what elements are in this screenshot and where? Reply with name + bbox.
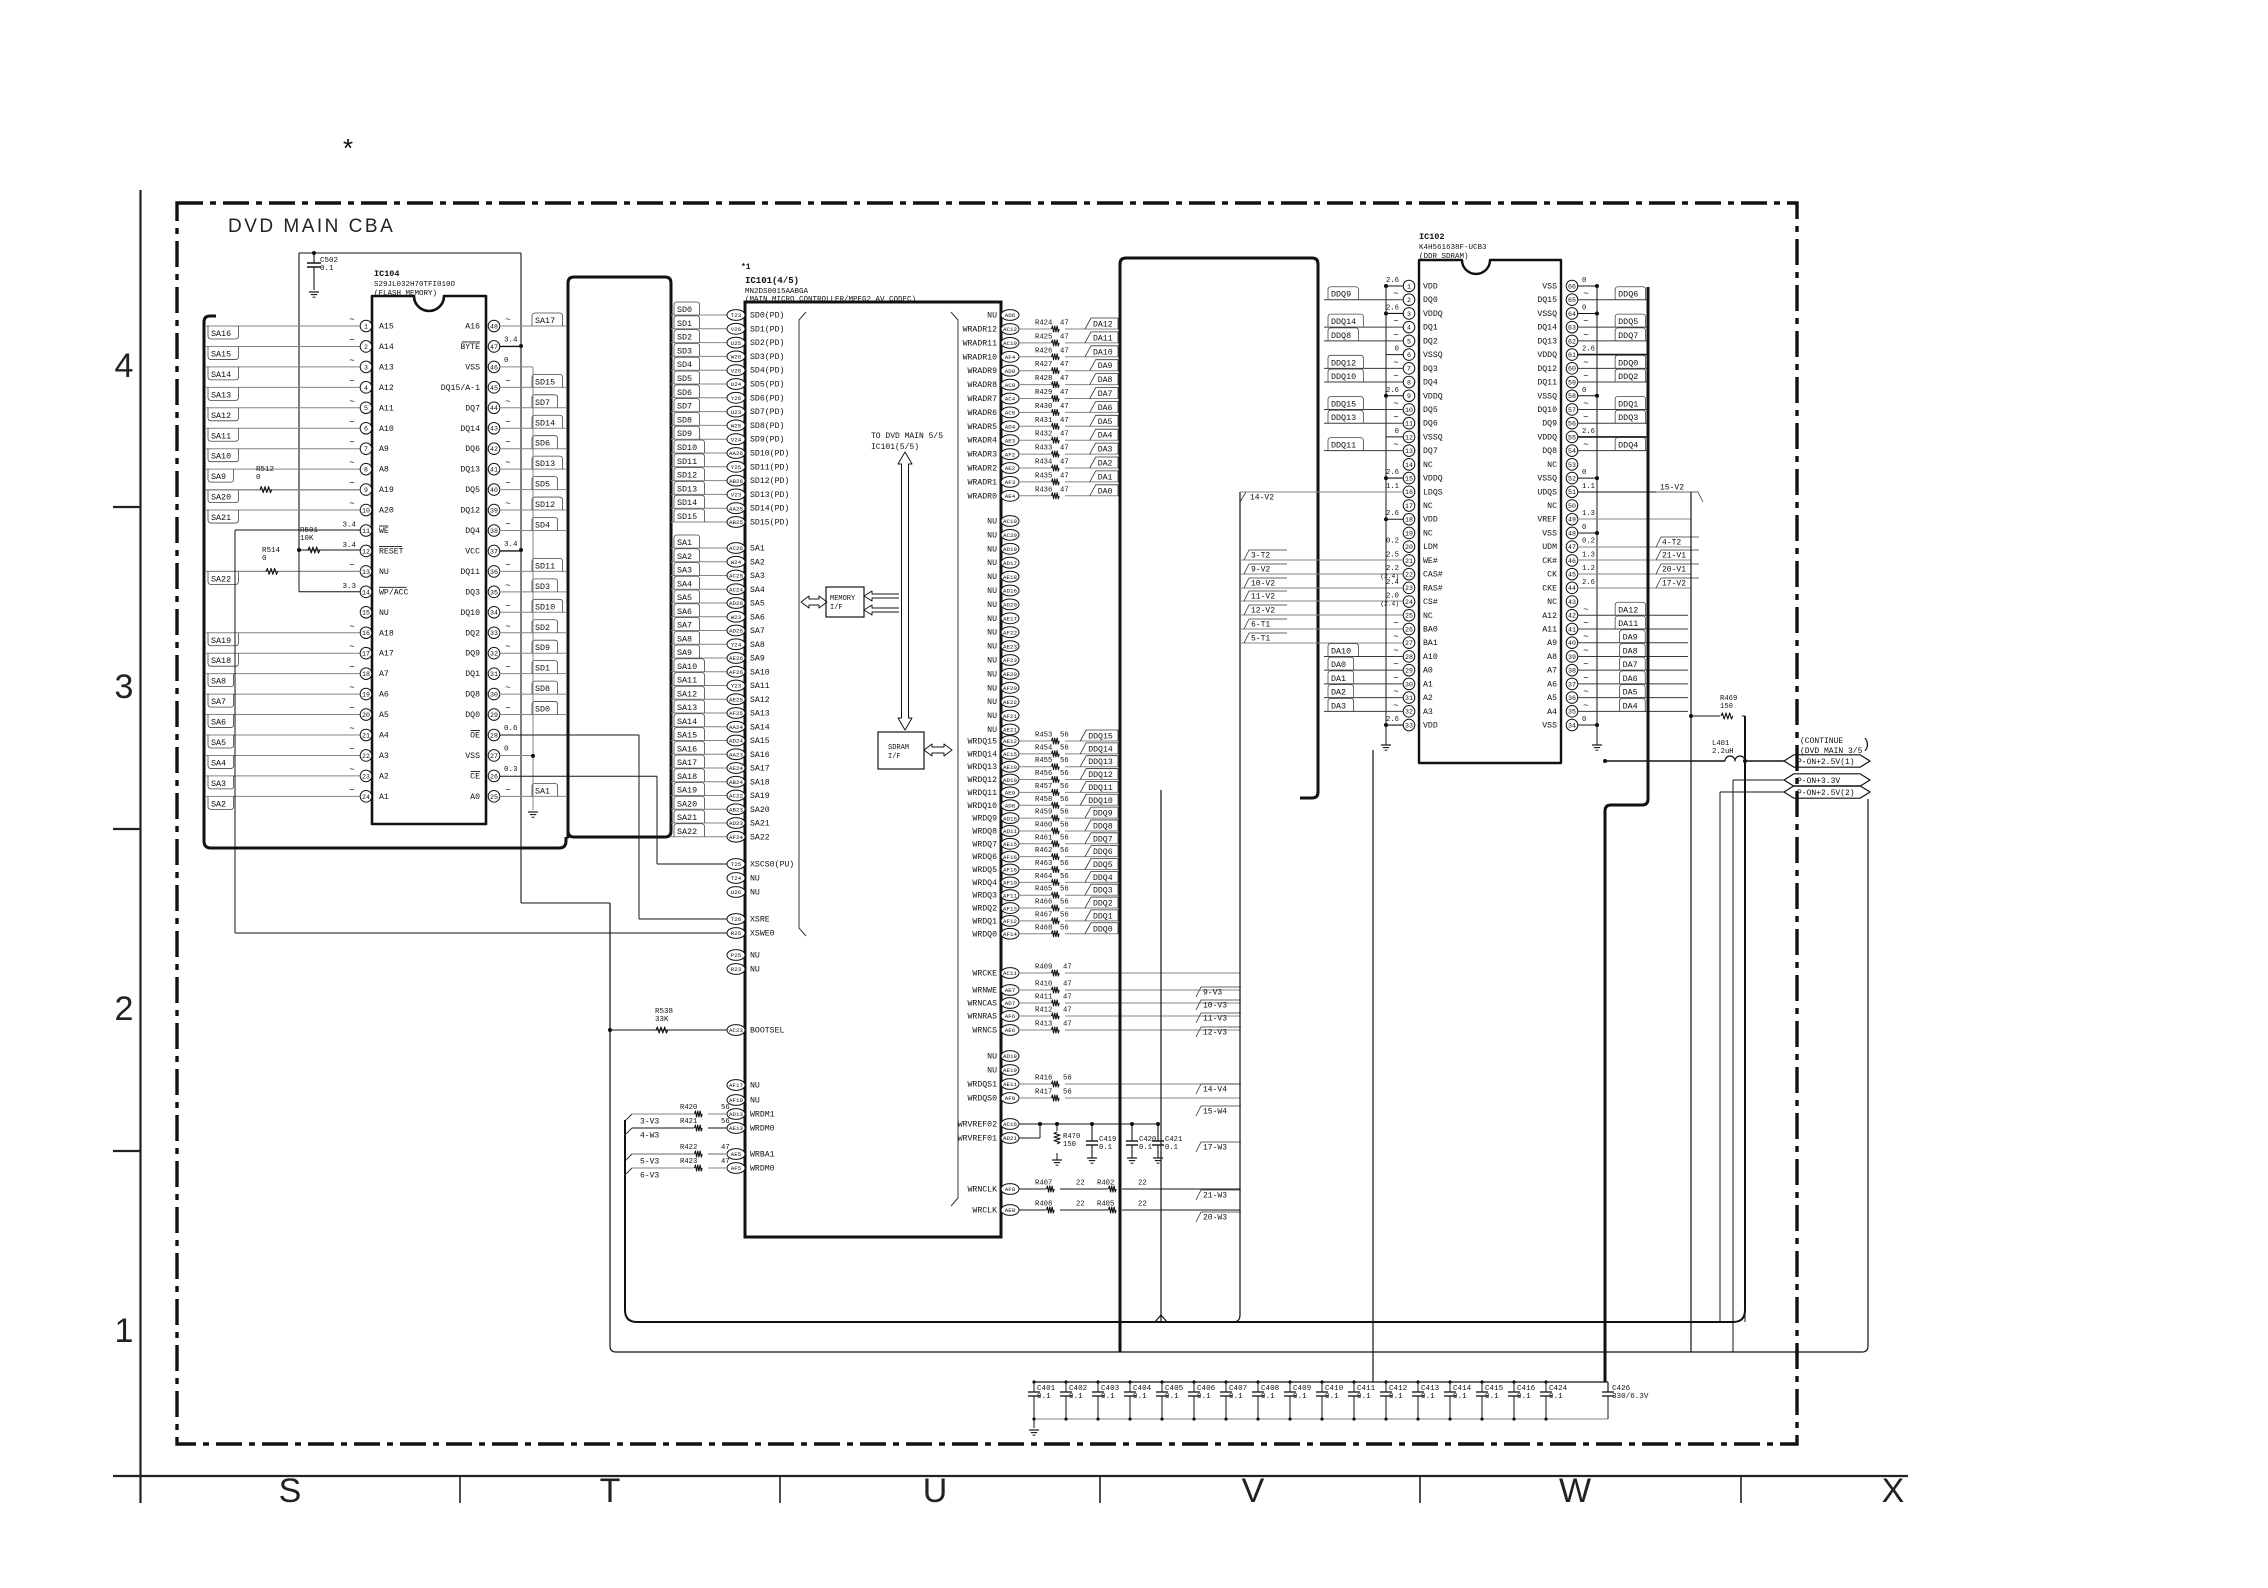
svg-text:WRADR3: WRADR3: [968, 451, 998, 460]
svg-text:47: 47: [1060, 389, 1069, 397]
flag 5-V3: [625, 1154, 632, 1161]
svg-text:3.4: 3.4: [342, 542, 356, 550]
svg-text:~: ~: [349, 765, 354, 775]
svg-text:44: 44: [1568, 585, 1576, 592]
svg-text:Y25: Y25: [731, 464, 742, 471]
IC101 pin AF5 WRDM0: [727, 1163, 745, 1174]
svg-text:~: ~: [1583, 330, 1588, 340]
svg-text:DQ15/A-1: DQ15/A-1: [441, 383, 480, 393]
svg-text:IC104: IC104: [374, 269, 400, 279]
svg-text:~: ~: [505, 520, 510, 530]
svg-text:AE7: AE7: [1005, 987, 1016, 994]
svg-text:NU: NU: [750, 1082, 760, 1091]
svg-text:C401: C401: [1037, 1385, 1056, 1393]
svg-text:AE18: AE18: [1003, 574, 1017, 581]
net label SD6 bus: [671, 397, 727, 399]
svg-text:~: ~: [1583, 372, 1588, 382]
net label DA9: [1577, 642, 1688, 644]
net label SA5 bus: [671, 602, 727, 604]
IC101 pin AE15 WRDQ7: [1001, 838, 1019, 849]
svg-text:DQ8: DQ8: [1542, 447, 1557, 456]
svg-text:DQ13: DQ13: [460, 466, 480, 475]
svg-text:WRDQ14: WRDQ14: [968, 750, 998, 759]
IC102 pin 33 VDD: [1403, 719, 1415, 731]
svg-text:NU: NU: [987, 573, 997, 582]
svg-text:47: 47: [721, 1144, 730, 1152]
svg-text:SD6: SD6: [535, 439, 550, 449]
svg-text:W: W: [1559, 1472, 1591, 1510]
svg-text:25: 25: [1405, 613, 1413, 620]
IC104 pin 9 A19: [206, 489, 361, 491]
IC101 pin U26 NU: [727, 887, 745, 898]
IC101 pin AD10 WRDQ12: [1001, 774, 1019, 785]
svg-text:WRDM0: WRDM0: [750, 1125, 775, 1134]
IC104 pin 19 A6: [206, 693, 361, 695]
svg-text:T25: T25: [731, 861, 742, 868]
svg-text:0: 0: [1582, 387, 1586, 395]
svg-text:WRDQ4: WRDQ4: [972, 879, 997, 888]
svg-text:AE23: AE23: [1003, 643, 1017, 650]
svg-text:A4: A4: [379, 732, 389, 741]
svg-text:12: 12: [1405, 434, 1413, 441]
IC101 pin AE21 NU: [1001, 724, 1019, 735]
resistor R413 47: [1019, 1029, 1051, 1031]
net label DDQ3: [1085, 884, 1118, 895]
svg-text:~: ~: [1583, 687, 1588, 697]
IC101 pin AA25 SD14(PD): [727, 503, 745, 514]
svg-text:0: 0: [1582, 716, 1586, 724]
resistor R407 22: [1019, 1188, 1046, 1190]
svg-text:AC12: AC12: [1003, 326, 1017, 333]
svg-text:V26: V26: [731, 326, 742, 333]
svg-text:MEMORY: MEMORY: [830, 595, 856, 603]
IC102 pin 27 BA1: [1403, 637, 1415, 649]
svg-text:VSS: VSS: [465, 363, 480, 372]
net label DA7: [1577, 669, 1688, 671]
svg-text:SA2: SA2: [211, 799, 226, 809]
svg-text:~: ~: [349, 356, 354, 366]
flag 14-V4: [1196, 1084, 1241, 1094]
svg-text:56: 56: [1060, 899, 1069, 907]
IC104 pin 29 DQ0: [488, 709, 500, 721]
svg-text:~: ~: [1583, 358, 1588, 368]
IC101 pin AE12 WRDQ15: [1001, 736, 1019, 747]
svg-text:DDQ2: DDQ2: [1093, 900, 1113, 909]
IC104 pin 11 WE: [360, 525, 372, 537]
svg-text:0: 0: [1582, 277, 1586, 285]
svg-text:~: ~: [505, 499, 510, 509]
IC102 pin 48 VSS: [1566, 527, 1578, 539]
svg-text:R468: R468: [1035, 924, 1052, 932]
svg-text:WRDQ11: WRDQ11: [968, 789, 998, 798]
svg-text:~: ~: [505, 560, 510, 570]
svg-text:WRDQ8: WRDQ8: [972, 827, 997, 836]
svg-text:NU: NU: [987, 670, 997, 679]
svg-text:U25: U25: [731, 340, 742, 347]
svg-text:SA20: SA20: [677, 799, 697, 809]
svg-text:A11: A11: [379, 404, 394, 413]
svg-text:0.1: 0.1: [1485, 1393, 1499, 1401]
net label SD14 bus: [671, 507, 727, 509]
IC101 pin AF21 NU: [1001, 710, 1019, 721]
svg-text:DDQ2: DDQ2: [1618, 372, 1638, 382]
IC101 pin AD13 WRDM1: [727, 1109, 745, 1120]
svg-text:SD4(PD): SD4(PD): [750, 366, 784, 376]
svg-text:2: 2: [1407, 297, 1411, 304]
svg-text:SA21: SA21: [677, 813, 697, 823]
svg-text:AC19: AC19: [1003, 518, 1017, 525]
net label SD2 bus: [671, 342, 727, 344]
flag 12-V3: [1196, 1027, 1241, 1037]
svg-text:53: 53: [1568, 462, 1576, 469]
svg-text:AF14: AF14: [1003, 931, 1017, 938]
IC101 pin AD24 SA15: [727, 735, 745, 746]
svg-text:C412: C412: [1389, 1385, 1408, 1393]
svg-text:SA17: SA17: [750, 765, 770, 774]
svg-text:DQ6: DQ6: [1423, 420, 1438, 429]
svg-text:A0: A0: [470, 793, 480, 802]
IC101 pin R25 XSWE0: [727, 928, 745, 939]
svg-text:NU: NU: [750, 952, 760, 961]
svg-text:4-W3: 4-W3: [640, 1132, 659, 1141]
IC101 pin AF11 WRDQ3: [1001, 890, 1019, 901]
svg-text:R436: R436: [1035, 486, 1052, 494]
IC104 pin 2 A14: [206, 345, 361, 347]
svg-text:1: 1: [115, 1312, 134, 1350]
net label DDQ1: [1577, 408, 1648, 410]
svg-text:DDQ9: DDQ9: [1331, 290, 1351, 300]
net label SA10 bus: [671, 671, 727, 673]
svg-text:1.3: 1.3: [1582, 510, 1595, 518]
IC101 pin AF25 SA13: [727, 708, 745, 719]
IC102 pin 58 VSSQ: [1566, 390, 1578, 402]
svg-text:AE8: AE8: [1005, 1207, 1016, 1214]
IC104 pin 30 DQ8: [488, 688, 500, 700]
capacitor C424 0.1: [1545, 1382, 1547, 1392]
IC101 pin AE2 WRADR2: [1001, 463, 1019, 474]
svg-text:10K: 10K: [300, 535, 314, 543]
svg-text:WRDQ5: WRDQ5: [972, 866, 997, 875]
IC101 pin AC5 WRADR6: [1001, 407, 1019, 418]
IC102 left power rail: [1385, 286, 1387, 738]
svg-text:3: 3: [1407, 311, 1411, 318]
net label SA13 bus: [671, 712, 727, 714]
svg-text:AE12: AE12: [1003, 738, 1017, 745]
svg-text:DQ9: DQ9: [465, 650, 480, 659]
svg-text:26: 26: [490, 773, 498, 780]
IC101 pin AE7 WRNWE: [1001, 985, 1019, 996]
net label SD4 bus: [671, 369, 727, 371]
net label DDQ2: [1577, 381, 1648, 383]
svg-text:AD11: AD11: [1003, 828, 1017, 835]
svg-text:0.1: 0.1: [1069, 1393, 1083, 1401]
svg-text:NU: NU: [987, 545, 997, 554]
svg-text:DQ14: DQ14: [460, 425, 480, 434]
svg-text:0.1: 0.1: [1139, 1144, 1152, 1152]
ruler row ticks: [113, 506, 141, 508]
svg-text:2.6: 2.6: [1386, 387, 1399, 395]
svg-text:4: 4: [115, 347, 134, 385]
svg-text:R455: R455: [1035, 757, 1052, 765]
IC101 pin AF19 NU: [727, 1095, 745, 1106]
svg-text:DQ10: DQ10: [1537, 406, 1557, 415]
net label SD8 bus: [671, 424, 727, 426]
svg-text:V25: V25: [731, 367, 742, 374]
svg-text:DQ8: DQ8: [465, 691, 480, 700]
svg-text:NC: NC: [1547, 502, 1557, 511]
svg-text:47: 47: [1060, 361, 1069, 369]
svg-text:~: ~: [349, 458, 354, 468]
svg-text:25: 25: [490, 794, 498, 801]
IC101 pin AC15 WRDQ14: [1001, 748, 1019, 759]
svg-text:2.6: 2.6: [1582, 579, 1595, 587]
net label SA16 bus: [671, 753, 727, 755]
svg-text:R462: R462: [1035, 847, 1052, 855]
svg-text:~: ~: [1393, 399, 1398, 409]
net label SA17 bus: [671, 767, 727, 769]
svg-text:15-V2: 15-V2: [1660, 484, 1684, 493]
IC104 pin 28 OE: [488, 729, 500, 741]
svg-text:47: 47: [1060, 403, 1069, 411]
capacitor C421 0.1: [1157, 1124, 1159, 1141]
svg-text:NU: NU: [987, 615, 997, 624]
IC102 pin 25 NC: [1403, 609, 1415, 621]
IC102 DDR SDRAM body: [1419, 260, 1561, 763]
svg-text:WRADR8: WRADR8: [968, 381, 998, 390]
svg-text:(CONTINUE: (CONTINUE: [1800, 737, 1843, 746]
svg-text:A5: A5: [1547, 694, 1557, 703]
IC101 pin AD16 NU: [1001, 585, 1019, 596]
svg-text:~: ~: [505, 785, 510, 795]
svg-text:NU: NU: [987, 559, 997, 568]
svg-text:WRNCS: WRNCS: [972, 1027, 997, 1036]
IC102 pin 29 A0: [1403, 664, 1415, 676]
svg-text:WRADR1: WRADR1: [968, 478, 998, 487]
svg-text:AF26: AF26: [729, 669, 743, 676]
svg-text:31: 31: [490, 671, 498, 678]
svg-text:DDQ14: DDQ14: [1331, 317, 1356, 327]
IC104 pin 14 WP/ACC: [360, 586, 372, 598]
IC102 pin 52 VSSQ: [1566, 472, 1578, 484]
svg-text:~: ~: [1393, 673, 1398, 683]
svg-text:VCC: VCC: [465, 547, 480, 556]
svg-text:C413: C413: [1421, 1385, 1440, 1393]
IC101 pin AE24 SA17: [727, 763, 745, 774]
svg-text:A10: A10: [1423, 653, 1438, 662]
svg-text:C424: C424: [1549, 1385, 1568, 1393]
svg-text:~: ~: [349, 397, 354, 407]
svg-text:47: 47: [1060, 417, 1069, 425]
svg-text:21-V1: 21-V1: [1662, 552, 1686, 561]
svg-text:AB25: AB25: [729, 519, 743, 526]
capacitor C403 0.1: [1097, 1382, 1099, 1392]
IC101 pin AF16 WRDQ6: [1001, 851, 1019, 862]
net label DDQ7: [1577, 340, 1648, 342]
svg-text:C414: C414: [1453, 1385, 1472, 1393]
svg-text:SA20: SA20: [750, 806, 770, 815]
IC102 pin 20 LDM: [1403, 541, 1415, 553]
IC101 pin AF20 NU: [1001, 682, 1019, 693]
svg-text:SA8: SA8: [677, 634, 692, 644]
svg-text:DDQ6: DDQ6: [1093, 848, 1113, 857]
svg-text:SA16: SA16: [677, 744, 697, 754]
svg-text:WRDQ9: WRDQ9: [972, 815, 997, 824]
svg-text:DDQ3: DDQ3: [1093, 887, 1113, 896]
wire OE net: [499, 734, 639, 736]
svg-text:R408: R408: [1035, 1201, 1052, 1209]
svg-text:V23: V23: [731, 492, 742, 499]
svg-text:AE26: AE26: [729, 655, 743, 662]
svg-text:SD3: SD3: [535, 582, 550, 592]
svg-text:R422: R422: [680, 1144, 697, 1152]
svg-text:AD25: AD25: [729, 628, 743, 635]
svg-text:Y26: Y26: [731, 395, 742, 402]
svg-text:MN2DS0015AABGA: MN2DS0015AABGA: [745, 288, 809, 296]
svg-text:16: 16: [1405, 489, 1413, 496]
svg-text:SD5(PD): SD5(PD): [750, 380, 784, 390]
svg-text:P-ON+2.5V(1): P-ON+2.5V(1): [1797, 758, 1855, 767]
svg-text:*1: *1: [741, 263, 751, 272]
svg-text:SA5: SA5: [211, 738, 226, 748]
svg-text:A9: A9: [1547, 639, 1557, 648]
svg-text:SD10: SD10: [535, 602, 555, 612]
svg-text:12-V3: 12-V3: [1203, 1029, 1227, 1038]
net label DDQ6: [1085, 846, 1118, 857]
svg-text:DA10: DA10: [1331, 646, 1351, 656]
net label SD9 bus: [671, 438, 727, 440]
svg-text:56: 56: [1060, 873, 1069, 881]
resistor R457 56: [1019, 791, 1051, 793]
net label SD0: [532, 702, 558, 715]
svg-text:3-V3: 3-V3: [640, 1118, 659, 1127]
flag P-ON+3.3V: [1733, 779, 1784, 781]
svg-text:15: 15: [362, 610, 370, 617]
IC101 pin AB23 SA20: [727, 804, 745, 815]
IC102 pin 18 VDD: [1403, 513, 1415, 525]
IC104 pin 6 A10: [206, 427, 361, 429]
svg-text:SA1: SA1: [677, 538, 692, 548]
svg-text:DDQ8: DDQ8: [1331, 331, 1351, 341]
IC102 pin 10 DQ5: [1403, 404, 1415, 416]
svg-text:22: 22: [362, 753, 370, 760]
svg-text:AE24: AE24: [729, 765, 743, 772]
IC101 pin AC20 NU: [1001, 530, 1019, 541]
net label SA12: [208, 408, 238, 421]
IC101 pin AF8 WRNCLK: [1001, 1184, 1019, 1195]
net label DA4: [1090, 429, 1118, 440]
svg-text:11: 11: [1405, 421, 1413, 428]
svg-text:SD12: SD12: [677, 471, 697, 481]
svg-text:SA18: SA18: [750, 778, 770, 787]
flag P-ON+2.5V(2): [1720, 791, 1784, 793]
svg-text:44: 44: [490, 405, 498, 412]
svg-text:~: ~: [1393, 330, 1398, 340]
svg-text:R410: R410: [1035, 981, 1052, 989]
svg-text:0.1: 0.1: [320, 265, 334, 273]
svg-text:RESET: RESET: [379, 547, 404, 556]
IC102 pin 46 CK#: [1566, 555, 1578, 567]
svg-text:DQ10: DQ10: [460, 609, 480, 618]
svg-text:47: 47: [1063, 1021, 1072, 1029]
IC101 pin T23 SD0(PD): [727, 310, 745, 321]
svg-text:8: 8: [364, 467, 368, 474]
IC104 pin 45 DQ15/A-1: [488, 382, 500, 394]
IC101 pin AF22 NU: [1001, 627, 1019, 638]
svg-text:0.6: 0.6: [504, 725, 518, 733]
svg-text:47: 47: [1060, 486, 1069, 494]
net label SA11 bus: [671, 685, 727, 687]
IC104 pin 47 BYTE: [488, 341, 500, 353]
IC101 pin AE19 NU: [1001, 1065, 1019, 1076]
svg-text:SA10: SA10: [211, 452, 231, 462]
svg-text:36: 36: [490, 569, 498, 576]
IC102 pin 62 DQ13: [1566, 335, 1578, 347]
svg-text:R411: R411: [1035, 994, 1052, 1002]
flag column line V2/T1: [1233, 492, 1240, 1322]
svg-text:DA10: DA10: [1093, 348, 1113, 357]
svg-text:56: 56: [1060, 744, 1069, 752]
resistor R467 56: [1019, 920, 1051, 922]
svg-text:DA2: DA2: [1098, 460, 1113, 469]
svg-text:37: 37: [1568, 681, 1576, 688]
bus SA address bus left of IC104: [204, 316, 566, 848]
svg-text:R465: R465: [1035, 886, 1052, 894]
svg-text:R501: R501: [300, 527, 319, 535]
svg-text:AD26: AD26: [729, 600, 743, 607]
bus arrow TO DVD MAIN 5/5: [898, 452, 912, 730]
resistor R435 47: [1019, 481, 1051, 483]
svg-text:0: 0: [1582, 304, 1586, 312]
svg-text:AF11: AF11: [1003, 892, 1017, 899]
IC102 pin 65 DQ15: [1566, 294, 1578, 306]
net label DDQ11: [1324, 450, 1404, 452]
svg-text:DQ15: DQ15: [1537, 296, 1557, 305]
svg-text:10-V3: 10-V3: [1203, 1002, 1227, 1011]
svg-text:SA8: SA8: [211, 677, 226, 687]
svg-text:TO DVD MAIN 5/5: TO DVD MAIN 5/5: [871, 432, 943, 441]
resistor R466 56: [1019, 907, 1051, 909]
net label DDQ15: [1080, 730, 1118, 741]
svg-text:10-V2: 10-V2: [1251, 580, 1275, 589]
svg-text:V24: V24: [731, 436, 742, 443]
svg-text:AA24: AA24: [729, 724, 743, 731]
svg-text:9-V2: 9-V2: [1251, 566, 1270, 575]
svg-text:4: 4: [364, 385, 368, 392]
svg-text:0.1: 0.1: [1357, 1393, 1371, 1401]
IC101 pin AC22 SA19: [727, 790, 745, 801]
svg-text:AF20: AF20: [1003, 685, 1017, 692]
IC102 pin 35 A4: [1566, 706, 1578, 718]
svg-text:32: 32: [1405, 709, 1413, 716]
svg-text:AE10: AE10: [1003, 764, 1017, 771]
svg-text:~: ~: [1393, 701, 1398, 711]
svg-text:22: 22: [1138, 1201, 1147, 1209]
svg-text:2.6: 2.6: [1582, 428, 1595, 436]
svg-text:2.2uH: 2.2uH: [1712, 748, 1734, 756]
svg-text:SD11: SD11: [535, 561, 555, 571]
board outline dash-dot border DVD MAIN CBA: [177, 203, 1797, 1444]
svg-text:0.1: 0.1: [1197, 1393, 1211, 1401]
svg-text:40: 40: [490, 487, 498, 494]
net label DA11: [1085, 332, 1118, 343]
svg-text:*: *: [340, 136, 356, 166]
svg-text:56: 56: [1060, 924, 1069, 932]
IC101 pin AF24 SA22: [727, 831, 745, 842]
svg-text:AE11: AE11: [1003, 1081, 1017, 1088]
net label DA5: [1090, 415, 1118, 426]
svg-text:R514: R514: [262, 547, 281, 555]
IC101 pin AD26 SA5: [727, 598, 745, 609]
